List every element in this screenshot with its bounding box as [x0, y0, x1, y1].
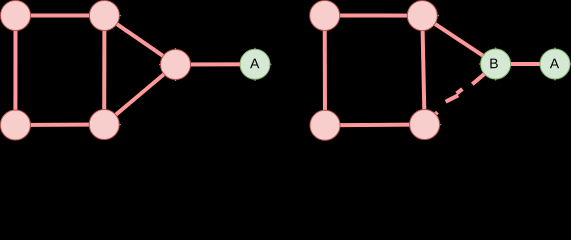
connection-point dot: node B south: [495, 79, 497, 81]
connection-point dot: left apex west: [159, 64, 161, 66]
connection-point dot: node B north: [495, 47, 497, 49]
wire: right top-right vertex to node B: [422, 16, 495, 64]
node A (right), labelled: [540, 49, 570, 79]
wire: node B to node A: [496, 62, 555, 66]
wire: left top-right vertex to apex vertex: [104, 16, 175, 65]
connection-point dot: left node A south: [254, 79, 256, 81]
node: left bottom-right vertex: [89, 110, 119, 140]
wire (dashed): right bottom-right vertex to node B, dash 4: [433, 112, 437, 116]
node: left top-right vertex: [89, 1, 119, 31]
connection-point dot: right bottom-right vertex east: [440, 124, 442, 126]
connection-point dot: left apex north: [175, 48, 177, 50]
node: right top-left vertex: [310, 1, 340, 31]
node: right bottom-left vertex: [310, 110, 340, 140]
wire: right square bottom edge: [325, 123, 425, 128]
wire (dashed): right bottom-right vertex to node B, dash 3: [446, 95, 459, 101]
connection-point dot: right node A east: [570, 63, 571, 65]
connection-point dot: left node A east: [270, 64, 272, 66]
node: left bottom-left vertex: [0, 110, 30, 140]
connection-point dot: left node A north: [254, 48, 256, 50]
connection-point dot: left top-right vertex east: [120, 15, 122, 17]
wire: right square top edge: [325, 14, 423, 18]
connection-point dot: left apex south: [175, 80, 177, 82]
node: right top-right vertex: [407, 1, 437, 31]
wire: left bottom-right vertex to apex vertex: [104, 65, 175, 125]
wire (dashed): right bottom-right vertex to node B, dash 1: [472, 74, 484, 84]
wire: left square left edge: [13, 16, 17, 126]
wire: right square right edge: [422, 16, 424, 125]
node: left apex vertex: [161, 50, 191, 80]
node: left top-left vertex: [1, 1, 31, 31]
node B, labelled: [481, 49, 511, 79]
connection-point dot: right top-right vertex east: [438, 15, 440, 17]
wire: right square left edge: [323, 16, 327, 126]
connection-point dot: right node A south: [554, 79, 556, 81]
connection-point dot: left bottom-right vertex east: [119, 124, 121, 126]
connection-point dot: node B west: [479, 63, 481, 65]
wire: left square top edge: [16, 14, 105, 18]
wire (dashed): right bottom-right vertex to node B, dash 2: [457, 89, 463, 94]
node: right bottom-right vertex: [410, 110, 440, 140]
node A (left), labelled: [240, 49, 270, 79]
wire: left square bottom edge: [15, 123, 104, 128]
wire: left apex vertex to node A: [176, 62, 256, 66]
wire: left square right edge: [102, 16, 106, 125]
connection-point dot: right node A north: [554, 47, 556, 49]
